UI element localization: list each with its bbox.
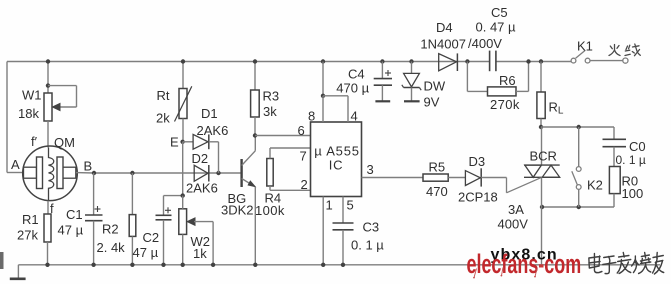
svg-text:R2: R2	[102, 222, 119, 237]
svg-text:f′: f′	[31, 134, 38, 149]
svg-text:E: E	[170, 135, 179, 150]
svg-text:2AK6: 2AK6	[186, 181, 218, 196]
svg-text:2CP18: 2CP18	[458, 190, 498, 205]
svg-text:D3: D3	[469, 154, 486, 169]
svg-text:1N4007: 1N4007	[420, 37, 466, 52]
svg-text:470: 470	[426, 184, 448, 199]
svg-text:/400V: /400V	[468, 36, 502, 51]
svg-text:400V: 400V	[498, 217, 529, 232]
svg-text:270k: 270k	[490, 97, 520, 112]
svg-text:2k: 2k	[156, 111, 170, 126]
svg-text:W1: W1	[22, 88, 42, 103]
svg-text:K1: K1	[577, 39, 593, 54]
svg-text:0. 1 µ: 0. 1 µ	[351, 238, 384, 253]
svg-text:R6: R6	[499, 73, 516, 88]
svg-text:0. 47 µ: 0. 47 µ	[476, 20, 517, 35]
svg-text:18k: 18k	[18, 106, 39, 121]
svg-text:R3: R3	[263, 89, 280, 104]
svg-text:5: 5	[347, 198, 354, 213]
svg-text:D4: D4	[436, 20, 453, 35]
svg-text:Rt: Rt	[157, 88, 170, 103]
svg-text:RL: RL	[549, 100, 564, 117]
svg-text:3A: 3A	[508, 202, 524, 217]
svg-text:0. 1 µ: 0. 1 µ	[616, 153, 646, 167]
svg-text:µ A555: µ A555	[314, 144, 360, 159]
svg-text:470 µ: 470 µ	[336, 81, 369, 96]
svg-text:DW: DW	[424, 79, 446, 94]
svg-text:C5: C5	[491, 5, 508, 20]
svg-text:A: A	[11, 157, 20, 172]
svg-text:3DK2: 3DK2	[221, 203, 254, 218]
svg-text:R1: R1	[22, 212, 39, 227]
svg-text:D2: D2	[192, 151, 209, 166]
svg-text:6: 6	[298, 123, 305, 138]
svg-text:IC: IC	[329, 158, 344, 173]
svg-text:1k: 1k	[193, 246, 207, 261]
svg-text:2: 2	[301, 177, 308, 192]
svg-text:47 µ: 47 µ	[133, 245, 159, 260]
svg-text:BCR: BCR	[530, 148, 557, 163]
svg-text:D1: D1	[201, 106, 218, 121]
svg-text:8: 8	[308, 109, 315, 124]
svg-text:3k: 3k	[263, 104, 277, 119]
svg-text:B: B	[84, 159, 93, 174]
svg-text:K2: K2	[587, 178, 603, 193]
svg-text:C4: C4	[348, 67, 365, 82]
svg-text:QM: QM	[54, 135, 75, 150]
svg-text:C0: C0	[629, 139, 646, 154]
svg-text:3: 3	[367, 162, 374, 177]
svg-text:C1: C1	[66, 207, 83, 222]
svg-text:1: 1	[326, 198, 333, 213]
svg-text:2. 4k: 2. 4k	[97, 240, 126, 255]
svg-text:9V: 9V	[424, 95, 440, 110]
svg-text:100: 100	[622, 186, 644, 201]
svg-text:2AK6: 2AK6	[197, 123, 229, 138]
svg-text:R5: R5	[429, 160, 446, 175]
svg-text:elecfans-com: elecfans-com	[467, 248, 582, 279]
svg-text:7: 7	[300, 149, 307, 164]
svg-text:4: 4	[351, 109, 358, 124]
svg-text:C3: C3	[363, 220, 380, 235]
svg-text:C2: C2	[143, 230, 160, 245]
svg-text:27k: 27k	[17, 228, 38, 243]
svg-text:100k: 100k	[255, 203, 285, 218]
svg-text:47 µ: 47 µ	[58, 223, 84, 238]
